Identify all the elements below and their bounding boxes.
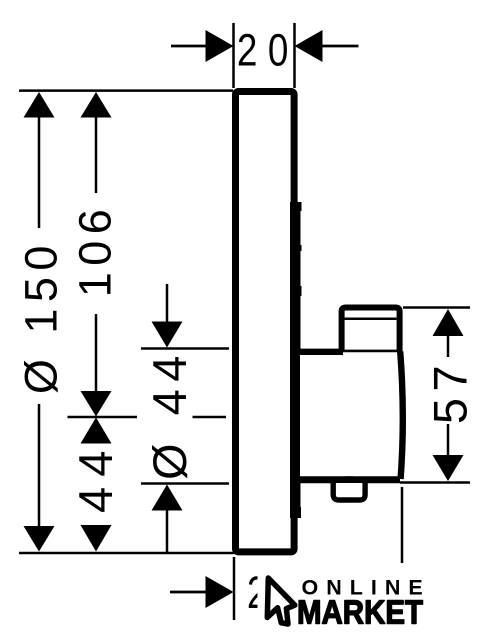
extension line below body right edge (401, 487, 404, 564)
sleeve strip behind plate right edge (290, 211, 301, 518)
dim Ø150 line lower segment (38, 404, 41, 527)
dim 106 line upper segment (95, 116, 98, 193)
plate (escutcheon side view) (236, 92, 295, 552)
svg-text:20: 20 (237, 25, 299, 75)
dim 106 bottom arrowhead (down) (81, 391, 112, 417)
dim Ø44 line lower segment (166, 509, 169, 552)
dim Ø44 line upper segment (166, 284, 169, 322)
dim Ø150 line upper segment (38, 116, 41, 228)
dim 20 left tail line (171, 45, 207, 48)
tick line y=483.5 (141, 482, 229, 485)
sleeve bump 4 (290, 507, 301, 518)
handle body top thin inner line (342, 350, 399, 353)
dim 106 top arrowhead (up) (81, 92, 112, 118)
top extension line left (x=233.5) (232, 23, 235, 88)
svg-text:Ø 44: Ø 44 (143, 348, 196, 480)
logo cursor arrow (267, 578, 295, 624)
logo white box (258, 563, 443, 632)
dim 20 right tail line (322, 45, 359, 48)
dim 57 top arrowhead (up) (433, 309, 464, 336)
dim 57 line upper segment (447, 335, 450, 357)
dim 20 left arrowhead (206, 30, 234, 62)
svg-text:106: 106 (70, 203, 121, 298)
dim 57 top extension line (403, 306, 470, 309)
handle body bottom thick edge (291, 476, 400, 483)
svg-text:57: 57 (424, 359, 477, 424)
bottom dim arrowhead (right) (206, 576, 234, 608)
tick line y=348.5 (141, 347, 229, 350)
sleeve bump 3 (290, 286, 302, 296)
svg-text:MARKET: MARKET (297, 594, 423, 631)
bottom tab bump (lip above body bottom edge) (333, 478, 365, 480)
sleeve bump 1 (290, 202, 302, 211)
dim 20 right arrowhead (295, 30, 323, 62)
bottom tab (333, 483, 365, 500)
svg-text:Ø 150: Ø 150 (16, 239, 67, 394)
bottom extension line below plate left edge (233, 557, 236, 620)
top reference hline (plate top extended left) (19, 89, 233, 92)
handle body right edge (curved) (400, 352, 403, 480)
dim Ø150 bottom arrowhead (down) (24, 526, 55, 552)
dim 106 line lower segment (95, 314, 98, 391)
bottom dim tail line (170, 591, 207, 594)
svg-text:44: 44 (69, 441, 122, 513)
dim 57 bottom arrowhead (down) (433, 455, 464, 481)
tick line y=417 left segment (68, 416, 138, 419)
select knob (top small knob) (342, 308, 400, 353)
dim Ø44 bottom arrowhead (up) (152, 485, 183, 511)
tick line y=417 right segment (193, 416, 227, 419)
bottom reference hline (plate bottom extended left) (19, 552, 234, 555)
dim 57 bottom extension line (400, 481, 470, 484)
bottom dim partial digit 2 (cut by logo box) (247, 567, 267, 618)
select knob inner line (344, 317, 397, 320)
dim 57 line lower segment (447, 424, 450, 456)
dim Ø150 top arrowhead (up) (24, 92, 55, 118)
dim 44 top arrowhead (up, below tick) (81, 418, 112, 444)
sleeve bump 2 (290, 245, 302, 251)
handle body interior fill (300, 352, 403, 479)
dim 44 bottom arrowhead (down) (81, 525, 112, 552)
top extension line right (x=294.5) (293, 23, 296, 88)
handle body top thick edge (296, 349, 343, 355)
dim Ø44 top arrowhead (down) (152, 322, 183, 348)
